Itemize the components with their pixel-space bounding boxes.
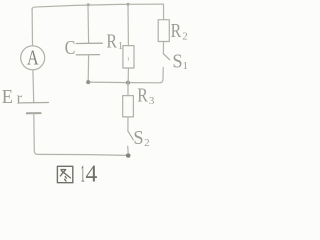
svg-text:1: 1: [118, 40, 124, 52]
svg-text:r: r: [17, 89, 23, 108]
battery E long plate: [20, 102, 49, 104]
capacitor C top plate: [76, 42, 102, 44]
switch S2 blade: [128, 131, 133, 140]
caption character tu (figure) drawn: [57, 166, 72, 182]
switch S1 blade: [163, 54, 169, 60]
wire R1 bottom vertical: [127, 68, 129, 83]
wire left vertical to ammeter: [31, 9, 33, 46]
battery E short plate: [27, 112, 41, 114]
resistor R2 body: [158, 20, 169, 42]
wire R2 top vertical: [163, 4, 165, 20]
resistor R1 body: [123, 46, 134, 68]
capacitor C bottom plate: [76, 54, 99, 56]
wire middle horizontal with corner up to S1: [88, 67, 163, 82]
svg-text:A: A: [27, 46, 39, 70]
wire R2 to switch S1: [162, 42, 164, 54]
svg-text:1: 1: [81, 161, 85, 188]
wire capacitor top vertical: [87, 5, 90, 44]
wire R1 top vertical: [127, 4, 129, 45]
svg-text:R: R: [171, 20, 182, 42]
svg-text:1: 1: [183, 60, 189, 72]
wire R3 to switch S2: [127, 117, 129, 131]
wire R3 top vertical: [127, 83, 129, 96]
svg-text:2: 2: [144, 137, 150, 149]
svg-text:3: 3: [149, 95, 155, 107]
wire battery to bottom-left corner and bottom horizontal: [34, 113, 126, 155]
svg-text:4: 4: [86, 161, 98, 188]
svg-text:C: C: [65, 37, 76, 59]
wire S2 lower terminal: [127, 146, 130, 153]
wire ammeter to battery: [32, 70, 35, 102]
svg-text:S: S: [172, 51, 182, 73]
resistor R3 body: [123, 96, 134, 117]
node capacitor-middle junction: [86, 80, 90, 84]
svg-text:S: S: [133, 127, 143, 149]
node bottom terminal dot: [126, 153, 131, 158]
node top-capacitor junction: [87, 3, 90, 6]
node R1-R3 middle junction: [126, 81, 130, 85]
node top-R1 junction: [127, 3, 130, 6]
resistor R1 ink speck: [127, 57, 129, 60]
ammeter A1 circle: [21, 46, 45, 70]
wire top horizontal: [32, 4, 164, 9]
svg-text:E: E: [2, 86, 13, 108]
svg-text:R: R: [106, 30, 117, 52]
wire capacitor bottom vertical: [87, 55, 89, 82]
svg-text:R: R: [137, 85, 148, 107]
svg-text:2: 2: [182, 30, 188, 42]
